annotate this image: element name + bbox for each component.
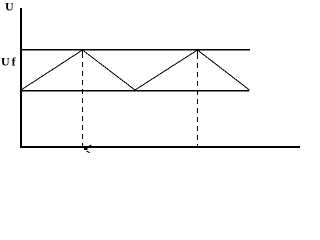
vertical axis (U axis): [20, 8, 22, 148]
dashed line at first peak: [82, 50, 84, 58]
svg-text:U: U: [5, 0, 14, 14]
lower threshold line: [21, 90, 249, 91]
arrowhead lower barb: [87, 151, 90, 153]
dashed line at second peak: [197, 50, 199, 59]
svg-text:Uf: Uf: [1, 55, 18, 69]
triangle wave: [21, 50, 250, 90]
arrowhead tip blob: [84, 147, 88, 151]
upper threshold line: [21, 49, 250, 50]
horizontal (time) axis: [20, 146, 300, 148]
arrowhead on time axis pointing left: upper barb: [85, 145, 91, 148]
